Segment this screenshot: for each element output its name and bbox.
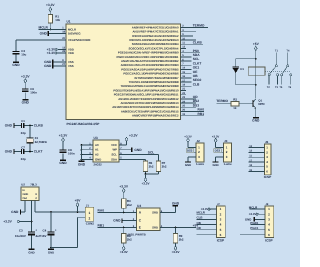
svg-text:A0: A0 (95, 144, 99, 147)
svg-text:22: 22 (182, 92, 185, 95)
svg-text:11: 11 (182, 42, 185, 45)
svg-text:VSS: VSS (68, 65, 74, 68)
svg-text:OSCO/CLKO/PMA12/AN14/CN29/RA3: OSCO/CLKO/PMA12/AN14/CN29/RA3 (129, 39, 178, 43)
svg-text:INT0/CN23/RP7/DMLN/PMD5/RB7: INT0/CN23/RP7/DMLN/PMD5/RB7 (135, 76, 179, 80)
svg-text:VDD: VDD (68, 52, 74, 55)
svg-text:PGC1: PGC1 (250, 226, 258, 230)
svg-text:GND: GND (245, 218, 251, 222)
svg-text:CON2: CON2 (86, 222, 94, 226)
svg-text:+3.3V: +3.3V (212, 135, 220, 138)
svg-text:10: 10 (182, 37, 185, 40)
svg-text:3: 3 (268, 218, 270, 222)
svg-text:ICSP: ICSP (217, 239, 225, 243)
svg-text:100n: 100n (68, 152, 75, 156)
svg-text:C8: C8 (68, 148, 72, 152)
svg-text:28: 28 (62, 50, 65, 53)
svg-text:1: 1 (89, 142, 91, 145)
svg-text:GND: GND (78, 163, 85, 167)
svg-text:10u: 10u (21, 53, 26, 57)
svg-text:6: 6 (120, 152, 122, 155)
svg-text:+3.3V: +3.3V (119, 185, 128, 189)
svg-text:C1: C1 (21, 120, 25, 124)
svg-text:C6: C6 (30, 88, 34, 92)
svg-text:NPN: NPN (258, 103, 264, 106)
svg-text:PGED2/TDI/DPLN/SDA1/RP10/PMA10: PGED2/TDI/DPLN/SDA1/RP10/PMA10/CN16/RB10 (113, 89, 178, 93)
svg-text:GND: GND (44, 61, 51, 65)
svg-text:SCL: SCL (193, 58, 200, 62)
svg-text:5: 5 (120, 157, 122, 160)
svg-text:4: 4 (268, 223, 270, 227)
svg-text:C3: C3 (19, 229, 23, 233)
svg-text:GND: GND (40, 32, 47, 36)
svg-text:CLB: CLB (197, 216, 203, 220)
svg-text:In: In (23, 189, 25, 192)
svg-text:GND: GND (59, 162, 66, 166)
svg-text:GND: GND (44, 65, 51, 69)
svg-text:24: 24 (182, 100, 185, 103)
svg-text:3: 3 (133, 225, 135, 228)
svg-text:T4: T4 (286, 50, 289, 53)
svg-text:2: 2 (220, 213, 222, 217)
svg-text:+5V: +5V (193, 224, 199, 228)
svg-text:17: 17 (182, 79, 185, 82)
svg-text:+3.3V: +3.3V (184, 135, 192, 138)
svg-text:26: 26 (182, 109, 185, 112)
svg-text:11: 11 (249, 155, 252, 158)
svg-text:PGEC1/AN3/C2IN+/VREF+/RP1/PMD1: PGEC1/AN3/C2IN+/VREF+/RP1/PMD1/CN5/RB1 (116, 55, 178, 59)
svg-text:4: 4 (182, 50, 184, 53)
svg-text:GND: GND (23, 193, 29, 196)
svg-text:2: 2 (89, 147, 91, 150)
svg-text:18: 18 (62, 31, 65, 34)
svg-text:+3.3V: +3.3V (142, 182, 150, 186)
svg-text:21: 21 (182, 88, 185, 91)
svg-text:4u7/16V: 4u7/16V (35, 234, 46, 238)
svg-text:SRD: SRD (152, 212, 158, 215)
svg-text:33p: 33p (21, 132, 26, 136)
svg-text:GND: GND (95, 158, 101, 161)
svg-text:GND: GND (22, 101, 29, 105)
svg-text:+3.3V: +3.3V (47, 51, 56, 55)
svg-text:6: 6 (220, 233, 222, 237)
svg-text:AN0/VREF+/PMA6/CTED1/CN2/RA0: AN0/VREF+/PMA6/CTED1/CN2/RA0 (132, 26, 179, 30)
svg-text:R9: R9 (179, 234, 183, 238)
svg-text:6: 6 (268, 233, 270, 237)
svg-text:OE: OE (193, 70, 198, 74)
svg-text:ICSP: ICSP (264, 175, 272, 179)
svg-text:2: 2 (35, 197, 37, 200)
svg-text:T6: T6 (288, 86, 291, 89)
svg-text:J2: J2 (197, 140, 200, 144)
svg-text:PGED3/ASDA1/DPLN/RP5/PMD7/CN27: PGED3/ASDA1/DPLN/RP5/PMD7/CN27/RB5 (121, 68, 178, 72)
svg-text:OSCI/CLKI/PMA11/AN13/CN30/RA2: OSCI/CLKI/PMA11/AN13/CN30/RA2 (132, 34, 178, 38)
svg-text:J6: J6 (265, 141, 269, 145)
svg-text:SEG0: SEG0 (193, 79, 202, 83)
svg-text:27: 27 (62, 63, 65, 66)
svg-text:J7: J7 (217, 203, 220, 206)
svg-text:SDA: SDA (111, 158, 117, 161)
svg-text:J3: J3 (224, 140, 228, 144)
svg-text:VCC: VCC (111, 144, 117, 147)
svg-text:E: E (139, 226, 142, 230)
svg-text:R2: R2 (233, 98, 237, 102)
svg-text:Out: Out (23, 197, 28, 200)
svg-text:A1: A1 (95, 149, 99, 152)
svg-text:DS2: DS2 (187, 150, 192, 153)
svg-text:SCL: SCL (111, 154, 117, 157)
svg-text:CLKB: CLKB (193, 41, 202, 45)
svg-text:WP: WP (112, 149, 117, 152)
svg-text:AN5/C1IN+/SCL2/T4CK/RP3/PMD3/C: AN5/C1IN+/SCL2/T4CK/RP3/PMD3/CN7/RB3 (121, 64, 179, 68)
svg-text:15: 15 (182, 71, 185, 74)
svg-text:PGEC3/ASCL1/DPH/RP6/PMD6/CN24/: PGEC3/ASCL1/DPH/RP6/PMD6/CN24/RB6 (123, 72, 178, 76)
svg-text:1k: 1k (233, 106, 237, 110)
svg-text:AN9/SCK1/CTED4/RP15/PMCS1/CN11: AN9/SCK1/CTED4/RP15/PMCS1/CN11/RB15 (121, 110, 179, 114)
svg-text:7: 7 (182, 63, 184, 66)
svg-text:7: 7 (120, 147, 122, 150)
svg-text:+3.3V: +3.3V (47, 48, 56, 52)
svg-text:GND: GND (12, 64, 19, 68)
svg-text:AN12/HLVDIN/CTED2/RP12/PMD0/CN: AN12/HLVDIN/CTED2/RP12/PMD0/CN14/RB12 (118, 97, 178, 101)
svg-text:RB1: RB1 (198, 112, 205, 116)
svg-text:PGEC2/TMS/DMLN/SCL1/RP11/PMA9/: PGEC2/TMS/DMLN/SCL1/RP11/PMA9/CN15/RB11 (114, 93, 179, 97)
svg-text:5: 5 (268, 228, 270, 232)
svg-text:13: 13 (249, 145, 252, 148)
svg-text:AN11/SDO1/CTED1/RP13/PMRD/CN13: AN11/SDO1/CTED1/RP13/PMRD/CN13/RB13 (121, 102, 179, 106)
svg-text:RA0: RA0 (198, 108, 205, 112)
svg-text:10u/16V: 10u/16V (15, 234, 26, 238)
svg-text:TCK/SCL1/DMH/RP8/PMD4/CN22/RB8: TCK/SCL1/DMH/RP8/PMD4/CN22/RB8 (129, 81, 179, 85)
svg-text:CLKT: CLKT (193, 62, 202, 66)
svg-text:U1: U1 (67, 20, 71, 24)
svg-text:MCLR: MCLR (249, 206, 258, 210)
svg-text:PGED1/AN2/C2IN-/VREF-/RP0/PMD0: PGED1/AN2/C2IN-/VREF-/RP0/PMD0/CN4/RB0 (118, 51, 179, 55)
svg-text:23: 23 (182, 96, 185, 99)
svg-text:RB1: RB1 (98, 224, 105, 228)
svg-text:X1: X1 (35, 137, 39, 140)
svg-text:3: 3 (220, 218, 222, 222)
svg-text:25: 25 (182, 105, 185, 108)
svg-text:GND: GND (185, 164, 191, 167)
svg-text:CLKT: CLKT (34, 150, 43, 154)
svg-text:T2: T2 (267, 86, 270, 89)
svg-text:18: 18 (249, 164, 252, 167)
svg-text:1: 1 (62, 27, 64, 30)
svg-text:4: 4 (89, 157, 91, 160)
svg-text:SDA: SDA (193, 54, 200, 58)
svg-text:33p: 33p (21, 158, 26, 162)
svg-text:C3: C3 (21, 50, 25, 54)
svg-text:+3.3V: +3.3V (249, 213, 257, 217)
svg-text:+3.3V: +3.3V (120, 251, 128, 255)
svg-text:MCLR: MCLR (197, 211, 206, 215)
svg-text:PGD1: PGD1 (250, 221, 258, 225)
svg-text:20: 20 (62, 37, 65, 40)
svg-text:T3: T3 (275, 86, 278, 89)
svg-text:J1: J1 (86, 204, 89, 207)
svg-text:D1: D1 (240, 68, 244, 71)
svg-text:2: 2 (266, 151, 268, 155)
svg-text:C: C (139, 219, 142, 223)
svg-text:+3.3V: +3.3V (21, 75, 30, 79)
svg-text:SOSCI/ASDA1/RP4/PMBE/CN1/RB4: SOSCI/ASDA1/RP4/PMBE/CN1/RB4 (132, 43, 179, 47)
svg-text:TDO/SDA1/PWRLCLK/RP9/PMA8/CN21: TDO/SDA1/PWRLCLK/RP9/PMA8/CN21/RB9 (121, 85, 179, 89)
svg-text:R7: R7 (162, 162, 166, 165)
svg-text:19: 19 (249, 169, 252, 172)
svg-text:2k2: 2k2 (127, 238, 132, 242)
svg-text:OB: OB (193, 75, 198, 79)
svg-text:U4: U4 (137, 205, 141, 209)
svg-text:U2: U2 (21, 184, 25, 187)
svg-text:6: 6 (161, 210, 163, 213)
svg-text:1: 1 (133, 210, 135, 213)
svg-text:A2: A2 (95, 154, 99, 157)
svg-text:+3.3V: +3.3V (172, 251, 180, 255)
svg-text:RA0: RA0 (98, 209, 105, 213)
svg-text:GND: GND (48, 252, 54, 255)
svg-text:GND: GND (5, 124, 12, 128)
svg-text:SOSCO/SCLKI/T1CK/CTPLS/CN0/RA4: SOSCO/SCLKI/T1CK/CTPLS/CN0/RA4 (128, 47, 178, 51)
svg-text:MCLR: MCLR (39, 26, 49, 30)
svg-text:12: 12 (182, 46, 185, 49)
svg-text:16: 16 (182, 75, 185, 78)
svg-text:3: 3 (182, 29, 184, 32)
svg-text:18: 18 (182, 84, 185, 87)
svg-text:32,768Hz: 32,768Hz (35, 140, 47, 144)
svg-text:4: 4 (220, 223, 222, 227)
svg-text:+3.3V: +3.3V (59, 134, 68, 138)
svg-text:+3.3V: +3.3V (201, 208, 209, 212)
svg-text:2k2: 2k2 (162, 165, 167, 169)
svg-text:AN8/CVREF/RP18/PMA2/CN10/RC2: AN8/CVREF/RP18/PMA2/CN10/RC2 (132, 114, 178, 118)
svg-text:GND: GND (252, 119, 259, 123)
svg-text:5: 5 (182, 54, 184, 57)
svg-text:TERMO: TERMO (216, 99, 228, 103)
svg-text:VCAP/VDDCORE: VCAP/VDDCORE (68, 38, 91, 42)
svg-text:+3.3V: +3.3V (3, 220, 12, 224)
svg-text:GND: GND (134, 148, 141, 152)
svg-text:5: 5 (220, 228, 222, 232)
svg-text:TERMO: TERMO (193, 24, 205, 28)
svg-text:+5V: +5V (75, 199, 81, 203)
svg-text:8: 8 (35, 193, 37, 196)
svg-text:19: 19 (182, 113, 185, 116)
svg-text:24C02: 24C02 (94, 164, 102, 167)
svg-text:VDD: VDD (68, 48, 74, 51)
svg-text:1: 1 (89, 211, 91, 215)
svg-text:OE1: OE1 (193, 66, 200, 70)
svg-text:2k2: 2k2 (127, 203, 132, 207)
svg-text:J8: J8 (266, 203, 269, 206)
svg-text:A: A (139, 211, 142, 215)
svg-text:GND: GND (5, 150, 12, 154)
svg-text:PS0: PS0 (193, 49, 199, 53)
svg-text:GND: GND (113, 219, 120, 223)
svg-text:R6: R6 (149, 162, 153, 166)
svg-text:1: 1 (268, 208, 270, 212)
svg-text:MCLR: MCLR (68, 28, 76, 31)
svg-text:CLKB: CLKB (34, 124, 43, 128)
svg-text:2: 2 (268, 213, 270, 217)
svg-text:6: 6 (182, 58, 184, 61)
svg-text:T5: T5 (279, 86, 282, 89)
svg-text:GND: GND (28, 252, 34, 255)
svg-text:2: 2 (182, 25, 184, 28)
svg-text:78L3: 78L3 (30, 184, 36, 187)
svg-text:1-wire: 1-wire (196, 162, 204, 166)
svg-text:13: 13 (62, 47, 65, 50)
svg-text:12: 12 (249, 150, 252, 153)
svg-text:GND: GND (11, 211, 18, 215)
svg-text:2: 2 (133, 218, 135, 221)
svg-text:DS2: DS2 (193, 100, 200, 104)
svg-text:2: 2 (89, 217, 91, 221)
svg-text:2k2: 2k2 (149, 165, 154, 169)
svg-text:ICSP: ICSP (265, 239, 273, 243)
svg-text:U3: U3 (94, 137, 98, 141)
svg-text:9: 9 (182, 33, 184, 36)
svg-text:GND: GND (212, 164, 218, 167)
svg-text:Q1: Q1 (258, 99, 262, 102)
svg-text:DISVREG: DISVREG (68, 32, 81, 35)
svg-text:PIC24FJ64GA002-I/SP: PIC24FJ64GA002-I/SP (67, 122, 100, 126)
svg-text:CLB: CLB (193, 83, 200, 87)
svg-text:R1: R1 (55, 16, 59, 19)
svg-text:100n: 100n (30, 91, 37, 95)
svg-text:10k: 10k (55, 19, 60, 23)
svg-text:DS3: DS3 (193, 104, 200, 108)
svg-text:3: 3 (89, 152, 91, 155)
svg-text:14: 14 (182, 67, 185, 70)
svg-text:+3.3V: +3.3V (46, 4, 55, 8)
svg-text:17: 17 (249, 159, 252, 162)
svg-text:DS3: DS3 (215, 150, 220, 153)
svg-text:C4: C4 (42, 229, 46, 233)
svg-text:4: 4 (161, 225, 163, 228)
svg-text:R8: R8 (127, 234, 131, 238)
svg-text:C7: C7 (21, 146, 25, 150)
svg-text:2k2: 2k2 (179, 238, 184, 242)
svg-text:1: 1 (220, 208, 222, 212)
svg-text:AN1/VREF-/PMA7/CTED2/CN3/RA1: AN1/VREF-/PMA7/CTED2/CN3/RA1 (132, 30, 178, 34)
svg-text:AN10/CVREF/RTCC/SDI1/RP14/PMWR: AN10/CVREF/RTCC/SDI1/RP14/PMWR/CN12/RB14 (112, 106, 179, 110)
svg-text:SCL: SCL (148, 151, 155, 155)
svg-text:8: 8 (62, 59, 64, 62)
svg-text:+3.3V: +3.3V (129, 134, 138, 138)
svg-text:GND: GND (172, 202, 179, 206)
svg-text:R3: R3 (127, 200, 131, 204)
svg-text:VSS: VSS (68, 61, 74, 64)
svg-text:+5V: +5V (253, 43, 259, 47)
svg-text:OD: OD (193, 96, 198, 100)
svg-text:T1: T1 (275, 50, 278, 53)
svg-text:AN4/C1IN-/SDA2/T5CK/RP2/PMD2/C: AN4/C1IN-/SDA2/T5CK/RP2/PMD2/CN6/RB2 (121, 60, 179, 64)
svg-text:8: 8 (120, 142, 122, 145)
svg-text:SRD: SRD (152, 227, 158, 230)
svg-text:1-wire: 1-wire (224, 162, 232, 166)
